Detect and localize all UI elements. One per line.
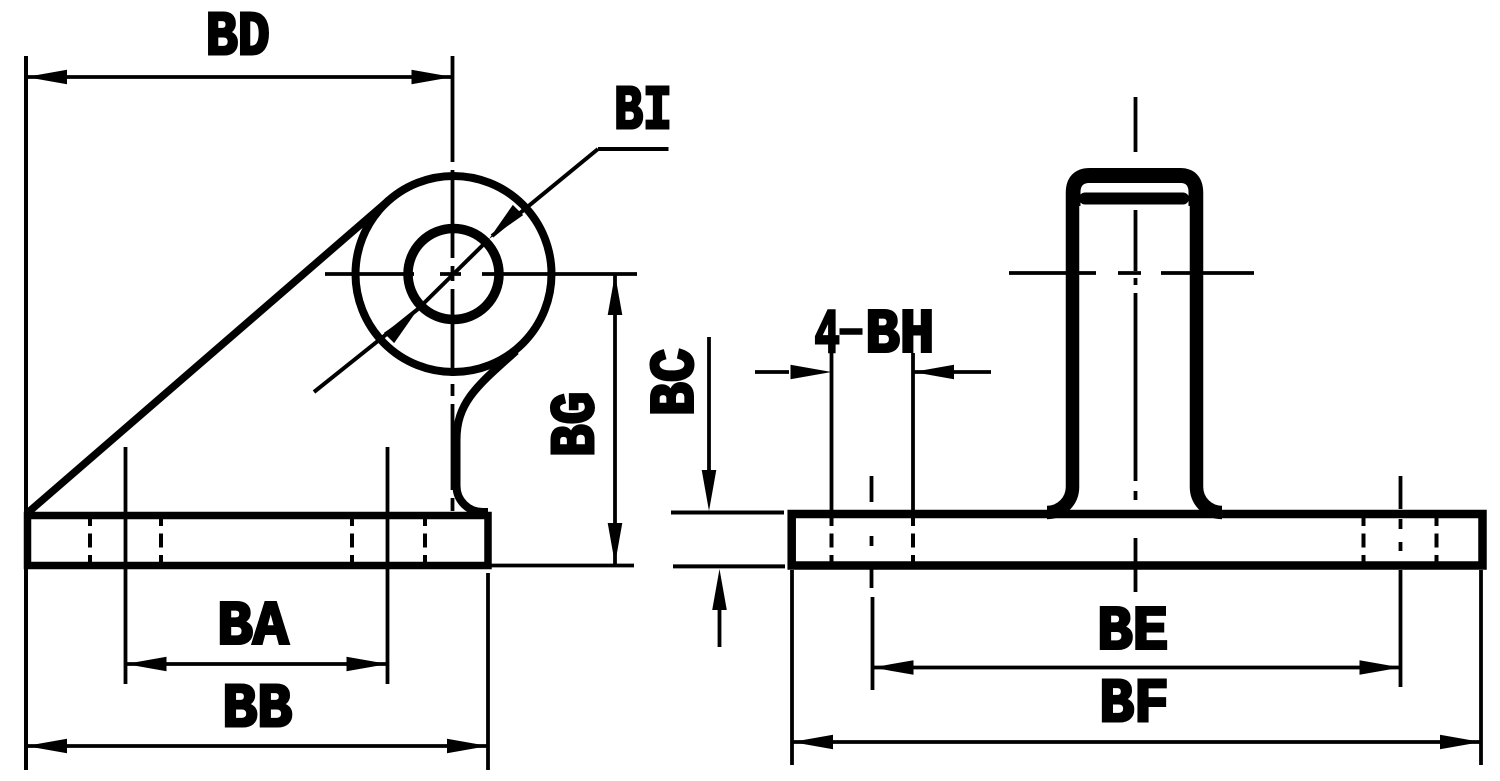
gusset diagonal edge [28,200,389,513]
dimension BC upper arrow [707,337,711,474]
hidden hole line [159,512,163,569]
outer circle (boss) [356,176,552,372]
svg-text:BF: BF [1099,669,1169,740]
right hole pair hidden lines [1362,512,1366,569]
svg-text:BI: BI [614,76,672,147]
svg-text:BA: BA [217,592,289,663]
post outline with bottom fillets [1047,175,1222,513]
dimension BE [873,666,1401,670]
svg-text:BH: BH [865,300,934,371]
post inner rim thin line [1079,182,1190,207]
svg-text:BB: BB [222,674,292,745]
vertical center line of post [1134,97,1138,592]
dimension BD [24,56,28,770]
dimension BC lower arrow [718,606,722,647]
leader BI [598,147,669,151]
BG bottom reference line [490,564,634,568]
svg-text:BG: BG [541,392,612,457]
inner circle (bore BI) [408,229,499,320]
right hole center line [1399,476,1403,687]
left hole pair: extension + hidden lines [830,353,834,511]
svg-text:BE: BE [1097,597,1168,668]
BC extension lines [671,511,784,515]
base plate outline (left view) [28,516,489,566]
hidden hole line [88,512,92,569]
dimension BA [124,447,128,684]
svg-text:BC: BC [641,348,712,416]
dimension BG [613,274,617,564]
svg-text:BD: BD [206,2,270,73]
base plate outline (right view) [792,514,1483,566]
dimension BB [486,573,490,770]
dimension BF [790,570,794,765]
horizontal center line of post [1009,271,1254,275]
dimension 4-BH [755,370,789,374]
hidden hole line [350,512,354,569]
post slot bar [1085,193,1183,205]
vertical center line of boss (and BD extension) [451,56,455,162]
horizontal center line of boss [325,272,637,276]
left hole center line [872,476,873,690]
stem right edge with fillet [457,351,517,512]
hidden hole line [423,512,427,569]
svg-text:4: 4 [815,300,840,371]
